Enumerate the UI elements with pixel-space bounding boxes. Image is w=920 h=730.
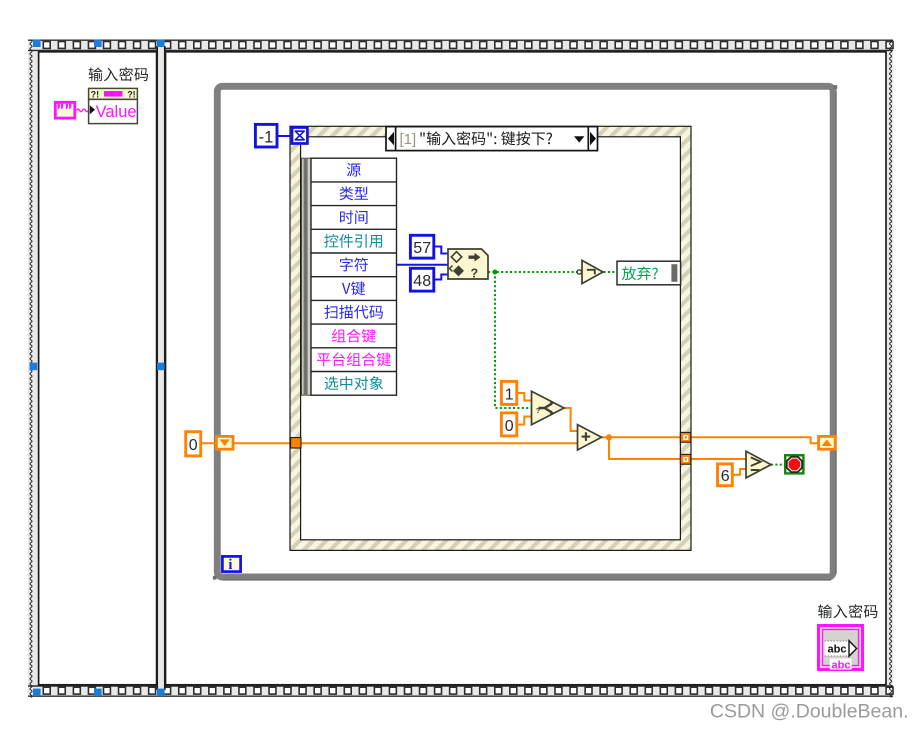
svg-text:abc: abc <box>832 660 851 672</box>
svg-text:[1]: [1] <box>400 131 417 148</box>
svg-text:?!: ?! <box>91 90 100 100</box>
svg-text:abc: abc <box>828 644 847 656</box>
svg-text:0: 0 <box>505 418 514 435</box>
svg-text:?: ? <box>471 267 479 281</box>
svg-text:CSDN @.DoubleBean.: CSDN @.DoubleBean. <box>710 700 909 722</box>
svg-text:57: 57 <box>413 240 431 257</box>
svg-text:i: i <box>228 557 232 573</box>
svg-text:0: 0 <box>189 437 198 454</box>
svg-text:?!: ?! <box>127 90 136 100</box>
svg-text:6: 6 <box>721 468 730 485</box>
svg-text:-1: -1 <box>259 129 274 147</box>
svg-text:48: 48 <box>413 273 431 290</box>
svg-text:1: 1 <box>505 386 514 403</box>
svg-text:Value: Value <box>96 103 137 121</box>
svg-text:?: ? <box>536 406 541 415</box>
